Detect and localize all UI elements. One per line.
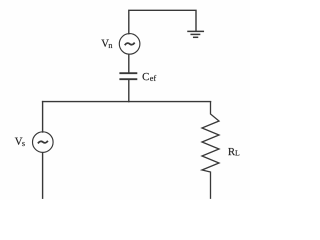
wire: top horizontal from Vn branch to ground branch <box>129 10 196 33</box>
wire: Vn bottom to capacitor top plate <box>128 54 130 72</box>
wire: left branch down to Vs <box>42 102 44 132</box>
resistor RL <box>202 102 219 199</box>
label Vn <box>101 40 112 48</box>
voltage source Vn <box>119 34 140 55</box>
ground <box>188 31 203 37</box>
label Cef <box>143 73 157 81</box>
capacitor Cef <box>120 73 136 79</box>
label RL <box>228 148 239 156</box>
wire: horizontal node line <box>43 101 211 103</box>
label Vs <box>15 138 25 146</box>
wire: capacitor bottom plate to node line <box>128 80 130 102</box>
wire: Vs bottom lead <box>42 153 44 199</box>
voltage source Vs <box>33 132 54 153</box>
